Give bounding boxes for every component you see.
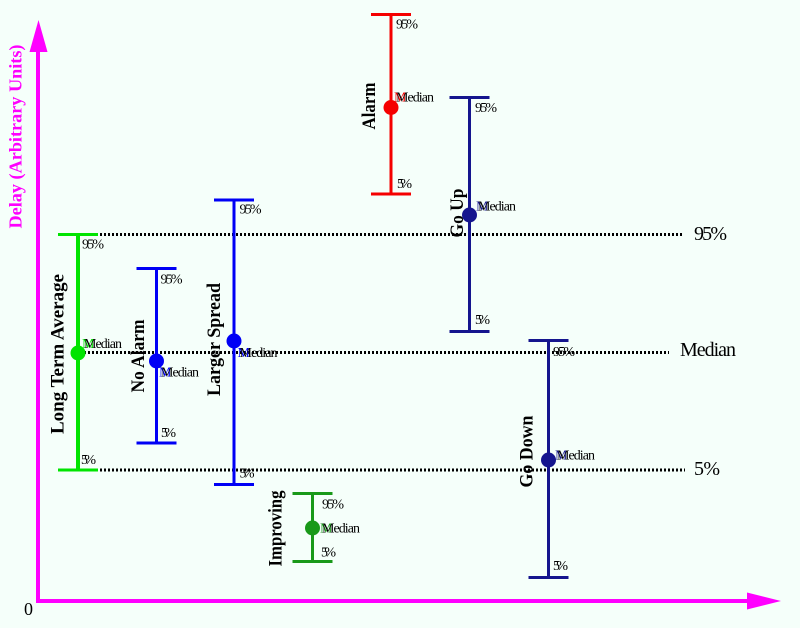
svg-text:Median: Median: [396, 91, 434, 106]
median dot No Alarm: [149, 354, 164, 369]
svg-text:Median: Median: [680, 339, 736, 361]
svg-text:5%: 5%: [694, 458, 720, 480]
bar Long Term Average (bright green): [58, 235, 98, 471]
svg-text:95%: 95%: [322, 498, 344, 513]
median dot Long Term Average: [71, 346, 86, 361]
svg-text:5%: 5%: [475, 313, 490, 328]
median dot Alarm: [384, 100, 399, 115]
x-axis line: [36, 599, 748, 603]
bar No Alarm (blue): [137, 269, 177, 444]
svg-text:5%: 5%: [161, 426, 176, 441]
median dot Go Up: [462, 208, 477, 223]
svg-text:95%: 95%: [475, 101, 497, 116]
svg-text:95%: 95%: [396, 18, 418, 33]
y-axis line: [36, 48, 40, 603]
svg-text:Alarm: Alarm: [359, 82, 380, 129]
gridline 5% dotted: [100, 469, 685, 472]
svg-text:Median: Median: [84, 337, 122, 352]
svg-text:Median: Median: [240, 346, 278, 361]
svg-text:Go Up: Go Up: [447, 189, 468, 238]
svg-text:95%: 95%: [82, 238, 104, 253]
bar Larger Spread (blue): [214, 200, 254, 485]
svg-text:5%: 5%: [81, 453, 96, 468]
svg-text:Median: Median: [322, 522, 360, 537]
svg-text:Improving: Improving: [266, 490, 287, 566]
svg-text:Median: Median: [161, 366, 199, 381]
bar Improving (dark green): [293, 494, 333, 562]
y-axis arrowhead: [30, 20, 48, 52]
median dot Go Down: [541, 453, 556, 468]
label Median (Larger Spread): [238, 346, 278, 361]
bar Alarm (red): [371, 15, 411, 195]
bar Go Up (navy): [450, 98, 490, 332]
label Median (No Alarm): [159, 366, 199, 381]
gridline Median dotted: [80, 351, 669, 354]
median dot Improving: [305, 521, 320, 536]
svg-text:Median: Median: [557, 449, 595, 464]
svg-text:Delay (Arbitrary Units): Delay (Arbitrary Units): [6, 45, 27, 229]
label Median (Go Up): [476, 200, 516, 215]
median dot Larger Spread: [227, 334, 242, 349]
svg-text:0: 0: [24, 599, 33, 619]
svg-text:5%: 5%: [397, 177, 412, 192]
label Median (Go Down): [555, 449, 595, 464]
svg-text:Long Term Average: Long Term Average: [48, 274, 69, 434]
svg-text:5%: 5%: [553, 559, 568, 574]
svg-text:Larger Spread: Larger Spread: [204, 283, 225, 396]
label Median (Alarm): [394, 91, 434, 106]
svg-text:No Alarm: No Alarm: [128, 319, 149, 392]
label Median (LTA): [82, 337, 122, 352]
label Median (Improving): [320, 522, 360, 537]
svg-text:95%: 95%: [240, 203, 262, 218]
svg-text:5%: 5%: [321, 546, 336, 561]
svg-text:5%: 5%: [240, 467, 255, 482]
svg-text:Median: Median: [478, 200, 516, 215]
gridline 95% dotted: [100, 233, 684, 236]
svg-text:Go Down: Go Down: [517, 415, 538, 487]
x-axis arrowhead: [747, 593, 781, 610]
bar Go Down (navy): [529, 341, 569, 578]
svg-text:95%: 95%: [694, 223, 727, 245]
svg-text:95%: 95%: [553, 345, 575, 360]
svg-text:95%: 95%: [161, 273, 183, 288]
